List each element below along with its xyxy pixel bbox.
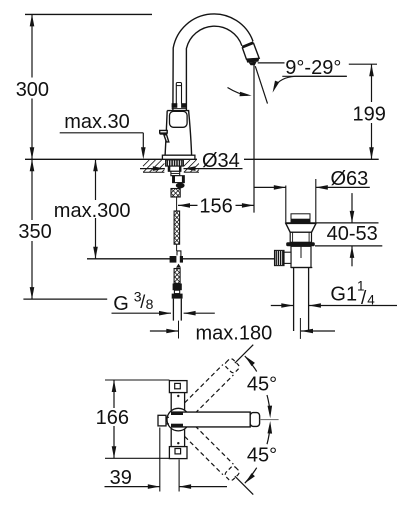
svg-text:4: 4 <box>367 292 375 307</box>
svg-text:max.180: max.180 <box>196 322 273 344</box>
svg-text:166: 166 <box>96 407 129 429</box>
svg-text:G: G <box>113 293 129 315</box>
svg-text:39: 39 <box>110 467 132 489</box>
svg-text:45°: 45° <box>247 374 277 396</box>
svg-text:max.30: max.30 <box>64 111 130 133</box>
svg-text:45°: 45° <box>247 445 277 467</box>
svg-text:199: 199 <box>353 103 386 125</box>
svg-text:/: / <box>361 288 367 309</box>
svg-text:/: / <box>140 292 145 312</box>
svg-text:300: 300 <box>16 79 49 101</box>
svg-text:Ø63: Ø63 <box>331 168 369 190</box>
svg-text:9°-29°: 9°-29° <box>285 57 341 79</box>
svg-text:max.300: max.300 <box>54 200 131 222</box>
svg-text:40-53: 40-53 <box>327 223 378 245</box>
svg-text:350: 350 <box>18 221 51 243</box>
svg-text:Ø34: Ø34 <box>202 150 240 172</box>
svg-text:8: 8 <box>146 296 154 312</box>
svg-text:156: 156 <box>199 196 232 218</box>
svg-text:G1: G1 <box>330 283 357 305</box>
